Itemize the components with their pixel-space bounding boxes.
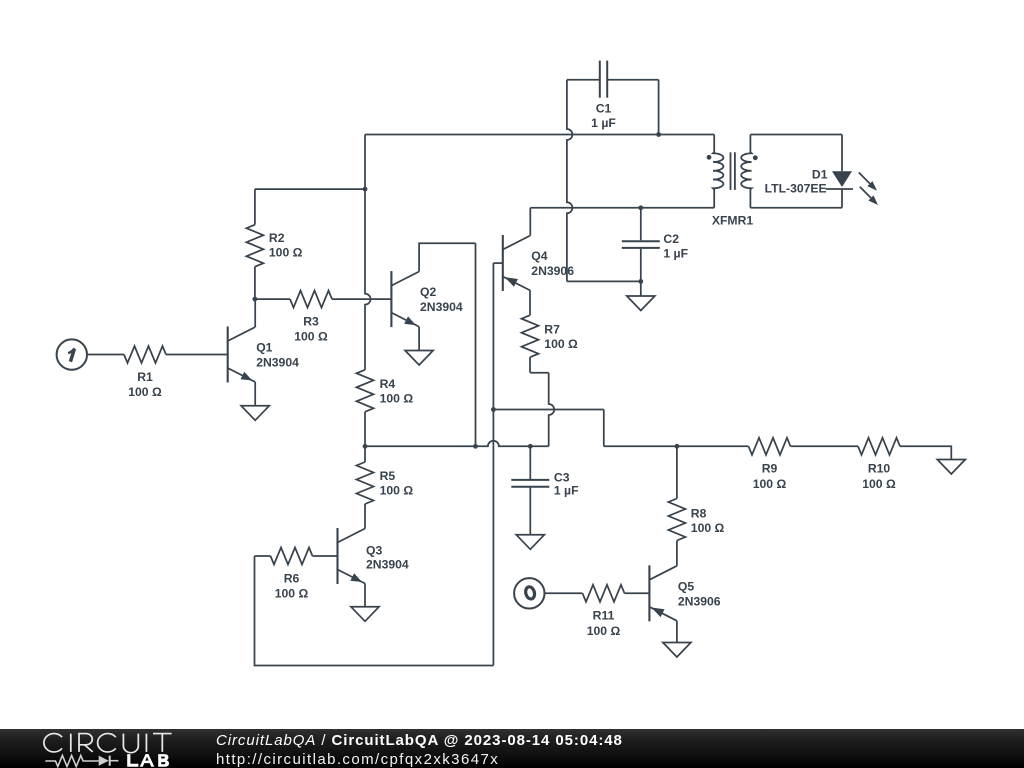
svg-text:100 Ω: 100 Ω	[753, 477, 787, 491]
svg-text:Q1: Q1	[256, 341, 272, 355]
svg-text:100 Ω: 100 Ω	[275, 587, 309, 601]
svg-text:2N3906: 2N3906	[531, 264, 574, 278]
svg-text:2N3906: 2N3906	[678, 594, 721, 608]
label LTL-307EE	[765, 181, 827, 195]
svg-text:1 µF: 1 µF	[554, 483, 579, 497]
main bus y446 left part (hop over x493)	[365, 441, 549, 447]
resistor R8	[668, 446, 724, 553]
node 0 (input net flag)	[514, 578, 544, 608]
resistor R7	[522, 291, 579, 373]
wire Q2 collector rail down	[475, 243, 477, 446]
svg-text:100 Ω: 100 Ω	[128, 385, 162, 399]
resistor R11	[583, 585, 625, 638]
wire D1 anode down	[841, 135, 843, 172]
footer line 1: author / title @ timestamp	[216, 732, 623, 749]
ground right end	[937, 460, 965, 475]
capacitor C2	[622, 208, 688, 282]
svg-text:100 Ω: 100 Ω	[380, 484, 414, 498]
transformer XFMR1 core	[731, 152, 735, 190]
svg-text:R7: R7	[544, 322, 560, 336]
svg-text:R4: R4	[380, 377, 396, 391]
wire C1 bottom to C2 bottom	[567, 280, 641, 282]
LED emission arrow 1	[859, 173, 877, 191]
wire D1 cathode down	[841, 189, 843, 208]
wire Q1 emitter down	[254, 382, 256, 406]
wire y207.8 left segment	[530, 207, 714, 209]
junction C1 right on top rail	[656, 132, 661, 137]
svg-text:R11: R11	[593, 609, 615, 623]
svg-text:LTL-307EE: LTL-307EE	[765, 181, 827, 195]
wire secondary top to D1	[750, 134, 842, 136]
node 1 (input net flag)	[57, 339, 87, 369]
svg-text:100 Ω: 100 Ω	[294, 330, 328, 344]
svg-text:R8: R8	[691, 507, 707, 521]
wire node0 to R11	[544, 592, 583, 594]
wire R11 to Q5 base	[625, 592, 650, 594]
svg-text:100 Ω: 100 Ω	[269, 246, 303, 260]
svg-text:Q2: Q2	[420, 285, 436, 299]
svg-text:R6: R6	[284, 571, 300, 585]
svg-text:100 Ω: 100 Ω	[380, 391, 414, 405]
svg-text:R9: R9	[762, 462, 778, 476]
junction R4 bottom on bus	[363, 444, 368, 449]
junction C2 bottom	[638, 279, 643, 284]
svg-text:R10: R10	[868, 462, 891, 476]
resistor R4	[357, 370, 414, 447]
resistor R10	[858, 438, 900, 491]
svg-text:1 µF: 1 µF	[663, 247, 688, 261]
ground at C3	[516, 535, 544, 550]
svg-text:100 Ω: 100 Ω	[544, 337, 578, 351]
wire top rail y134.5	[365, 134, 714, 136]
ground at Q1 emitter	[241, 406, 269, 421]
wire Q2 collector to rail	[419, 243, 475, 271]
junction C2 top	[638, 205, 643, 210]
svg-text:100 Ω: 100 Ω	[862, 477, 896, 491]
svg-text:C2: C2	[663, 232, 679, 246]
resistor R9	[749, 438, 791, 491]
wire Q3 emitter down	[364, 584, 366, 607]
wire x493 vertical	[492, 263, 494, 665]
wire R1 to Q1 base	[166, 354, 228, 356]
ground at Q2 emitter	[405, 351, 433, 366]
svg-text:Q3: Q3	[366, 544, 382, 558]
transformer XFMR1 phase dot secondary	[753, 155, 758, 160]
wire y409.5 branch	[493, 410, 603, 447]
svg-text:R3: R3	[303, 314, 319, 328]
footer line 2: url	[216, 751, 499, 768]
svg-text:2N3904: 2N3904	[366, 558, 409, 572]
transformer XFMR1 secondary winding	[741, 135, 751, 208]
resistor R2	[246, 189, 302, 299]
svg-text:Q5: Q5	[678, 579, 694, 593]
svg-text:R5: R5	[380, 469, 396, 483]
transistor Q1 (2N3904 NPN)	[228, 327, 299, 383]
ground at Q5 emitter	[663, 643, 691, 658]
wire C2 bottom to ground	[640, 281, 642, 296]
label XFMR1	[712, 214, 754, 228]
junction R8 top on bus	[675, 444, 680, 449]
wire C1 right vertical	[658, 80, 660, 135]
LED D1 cathode bar	[826, 188, 853, 190]
wire Q3 feedback loop (left/bottom)	[255, 556, 494, 666]
transistor Q2 (2N3904 NPN)	[391, 271, 463, 327]
svg-text:XFMR1: XFMR1	[712, 214, 754, 228]
transistor Q4 (2N3906 PNP)	[503, 235, 574, 291]
wire Q1 collector up	[254, 299, 256, 327]
wire node1 to R1	[86, 354, 124, 356]
CircuitLab logo LAB text	[127, 754, 169, 767]
ground at C2	[627, 296, 655, 311]
svg-text:100 Ω: 100 Ω	[587, 624, 621, 638]
label D1	[812, 167, 828, 181]
wire C1 left vertical (hops top rail and y207.8)	[567, 80, 573, 282]
svg-text:R2: R2	[269, 231, 285, 245]
svg-text:2N3904: 2N3904	[256, 356, 299, 370]
wire secondary bottom to D1	[750, 207, 842, 209]
svg-text:100 Ω: 100 Ω	[691, 521, 725, 535]
junction top of R2 rail	[363, 187, 368, 192]
wire Q4 collector up	[529, 208, 531, 236]
capacitor C3	[511, 446, 578, 535]
svg-text:2N3904: 2N3904	[420, 300, 463, 314]
wire Q5 emitter down	[676, 621, 678, 643]
wire R2 top rail	[255, 188, 365, 190]
transistor Q3 (2N3904 NPN)	[338, 528, 409, 584]
transformer XFMR1 primary winding	[713, 135, 723, 208]
wire Q4 base from x493	[493, 262, 502, 264]
transformer XFMR1 phase dot primary	[707, 155, 712, 160]
wire R10 to right ground	[900, 446, 951, 459]
resistor R5	[357, 446, 414, 528]
junction Q2 rail on bus	[473, 444, 478, 449]
junction C3 top on bus	[528, 444, 533, 449]
ground at Q3 emitter	[351, 607, 379, 622]
resistor R3	[255, 291, 332, 344]
svg-text:R1: R1	[137, 370, 153, 384]
LED D1 triangle	[832, 171, 852, 187]
CircuitLab logo wordmark CIRCUIT	[44, 734, 172, 753]
transistor Q5 (2N3906 PNP)	[649, 565, 720, 621]
wire R7 jog down to bus	[530, 373, 554, 447]
svg-text:Q4: Q4	[531, 249, 547, 263]
wire Q2 emitter down	[418, 327, 420, 351]
junction node A (R2/R3/Q1 collector)	[253, 297, 258, 302]
svg-text:C1: C1	[596, 102, 612, 116]
capacitor C1	[567, 61, 659, 130]
main bus y446 right part	[604, 445, 749, 447]
junction x493/y409 node	[491, 407, 496, 412]
resistor R1	[124, 346, 166, 399]
wire Q5 collector up to R8	[676, 553, 678, 566]
svg-text:1 µF: 1 µF	[591, 116, 616, 130]
svg-text:D1: D1	[812, 167, 828, 181]
wire R3 to Q2 base	[332, 298, 391, 300]
wire x365 vertical with hop over R3	[365, 189, 371, 370]
resistor R6	[255, 548, 338, 601]
wire R9 to R10	[791, 445, 859, 447]
LED emission arrow 2	[860, 187, 878, 205]
CircuitLab logo resistor-diode glyph	[45, 756, 118, 767]
wire top-left rail corner	[364, 135, 366, 190]
